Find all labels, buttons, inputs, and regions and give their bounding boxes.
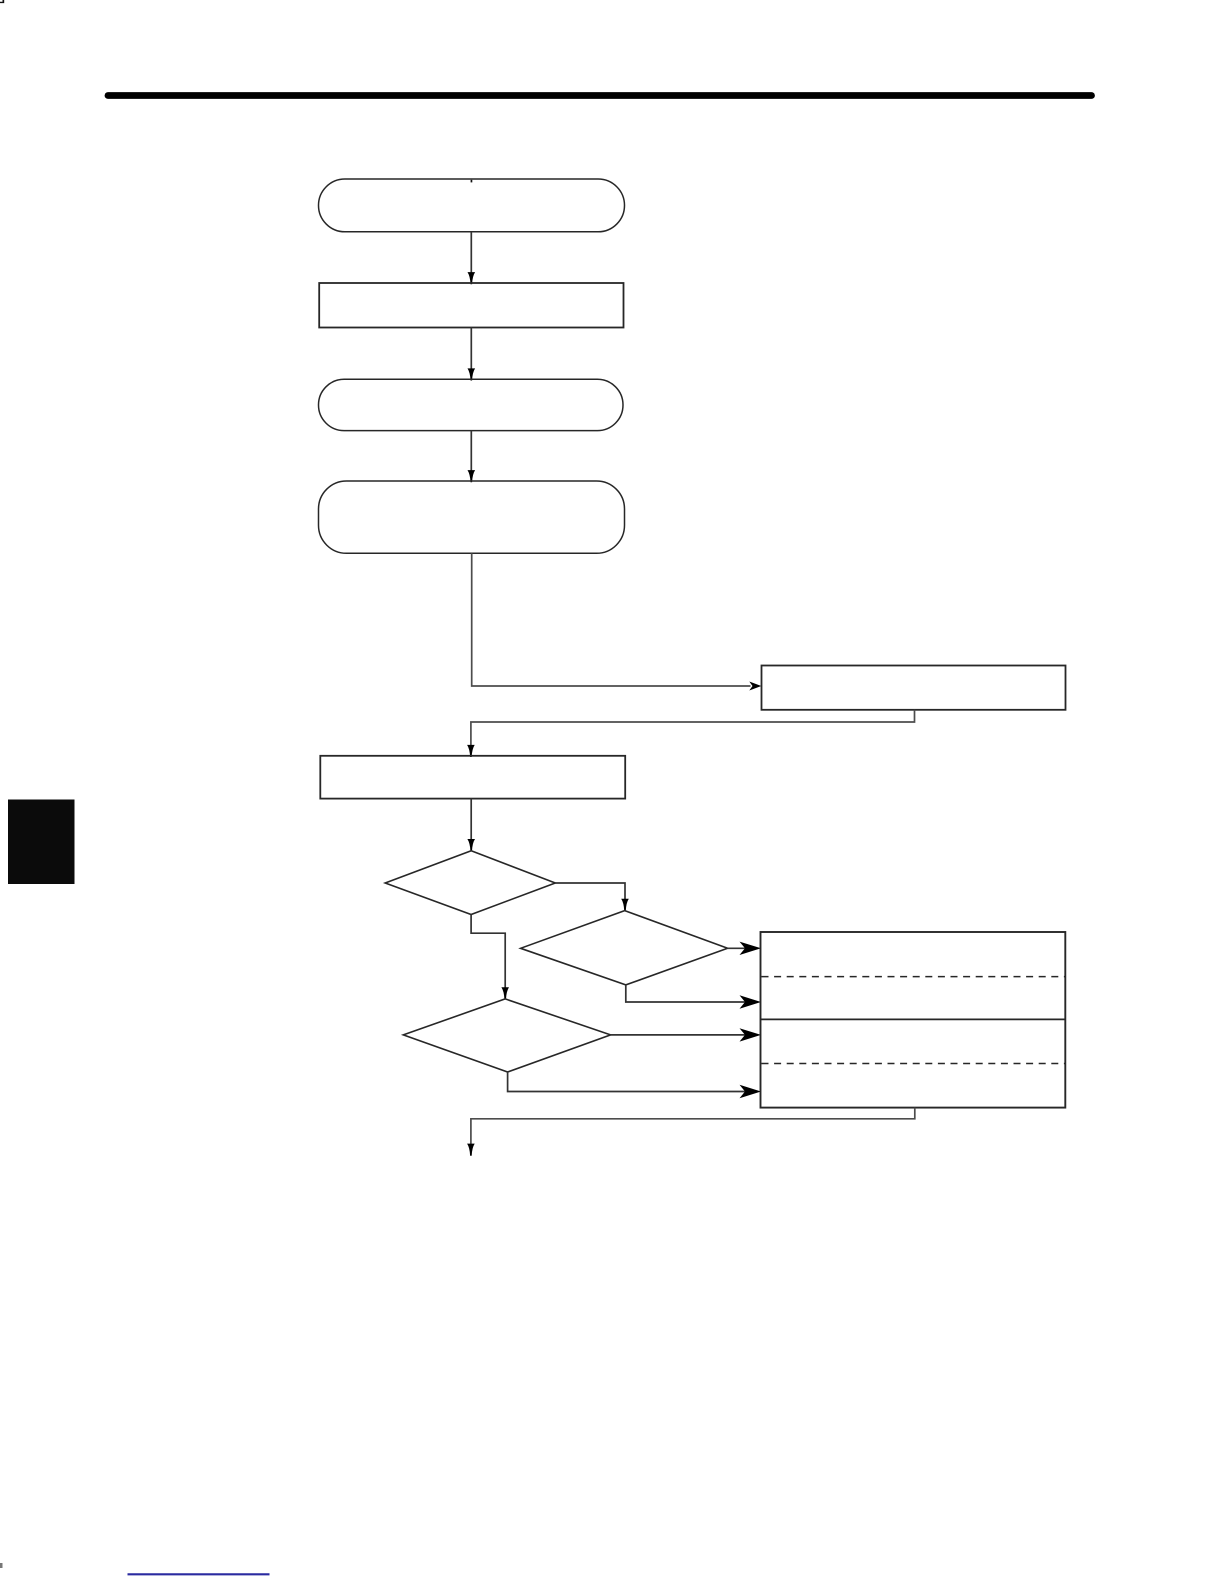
wire T3 to B1 <box>472 553 751 686</box>
header rule <box>108 92 1092 99</box>
chapter tab (black) <box>8 800 75 885</box>
arrowhead into box row 1 <box>740 942 762 955</box>
terminator T2 <box>319 379 624 430</box>
dashed separator 1 in B2 <box>762 976 1065 978</box>
process P1 <box>319 283 623 328</box>
arrowhead into P2 <box>467 745 475 757</box>
wire P2 to D1 <box>470 799 472 841</box>
terminator T1 (start) <box>319 179 625 232</box>
box B2 (sectioned) <box>761 932 1066 1108</box>
left margin speck <box>0 1563 3 1568</box>
arrowhead into box row 3 <box>740 1028 762 1041</box>
dashed separator 2 in B2 <box>762 1063 1065 1065</box>
arrowhead page exit <box>467 1144 475 1156</box>
wire D1 bottom to D3 <box>471 915 505 989</box>
wire P1 to T2 <box>470 328 472 370</box>
arrowhead into D1 <box>467 839 475 851</box>
arrowhead into box row 2 <box>740 995 762 1008</box>
arrowhead into T2 <box>468 368 476 380</box>
arrowhead into box row 4 <box>740 1085 762 1098</box>
decision D1 <box>385 851 555 915</box>
decision D2 <box>521 911 728 985</box>
arrowhead into P1 <box>468 272 476 284</box>
wire D2 bottom to box row 2 <box>626 985 747 1002</box>
arrowhead into D2 <box>621 899 629 911</box>
wire D1 right to D2 <box>555 883 625 900</box>
arrowhead into B1 <box>749 682 761 691</box>
page corner scan mark (top-left) <box>0 0 4 3</box>
box B1 <box>762 666 1066 710</box>
solid separator in B2 <box>761 1018 1066 1020</box>
process P2 <box>320 756 625 799</box>
decision D3 <box>403 999 610 1072</box>
wire B2 bottom exit <box>471 1108 915 1145</box>
stub node below T1 top edge <box>471 180 473 183</box>
footer link underline <box>128 1573 270 1575</box>
terminator T3 <box>319 481 625 553</box>
arrowhead into D3 <box>501 987 509 999</box>
arrowhead into T3 <box>468 470 476 482</box>
wire T2 to T3 <box>470 431 472 471</box>
wire D2 right to box row 1 <box>728 947 747 949</box>
wire D3 bottom to box row 4 <box>508 1072 747 1092</box>
wire D3 right to box row 3 <box>611 1034 747 1036</box>
wire T1 to P1 <box>470 232 472 273</box>
wire B1 to P2 <box>471 710 915 746</box>
